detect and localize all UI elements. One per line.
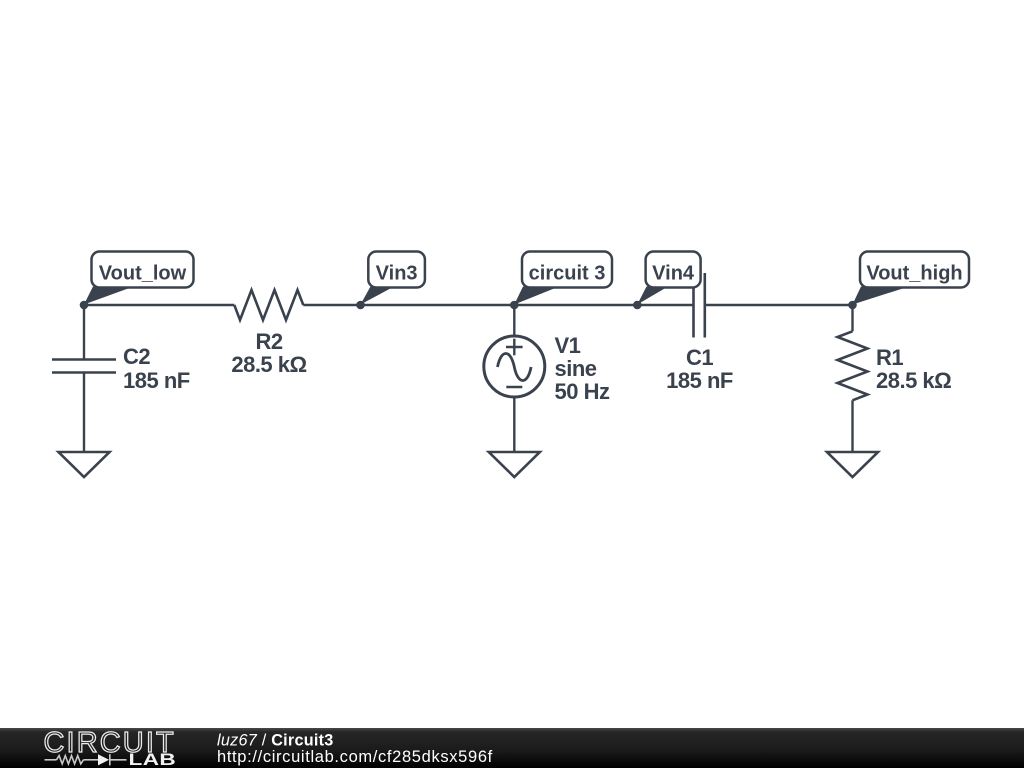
wire R1 branch lower — [851, 400, 853, 452]
voltage source V1 — [484, 336, 545, 397]
ground for C2 — [59, 452, 110, 477]
junction dot node Vout_high — [848, 301, 857, 310]
node Vout_low flag — [84, 252, 194, 305]
C1 value label — [666, 345, 733, 393]
CircuitLab logo wordmark — [44, 727, 176, 759]
wire V1 branch lower — [513, 397, 515, 452]
wire main horizontal middle segment — [303, 304, 693, 306]
junction dot node Vin4 — [633, 301, 642, 310]
svg-text:LAB: LAB — [129, 751, 177, 768]
svg-text:Vout_low: Vout_low — [99, 263, 187, 285]
resistor R1 — [838, 331, 868, 400]
svg-text:R1: R1 — [876, 345, 903, 370]
svg-text:Vin4: Vin4 — [652, 263, 695, 285]
svg-text:C1: C1 — [686, 345, 713, 370]
node Vin4 flag — [637, 252, 700, 305]
CircuitLab logo resistor-diode glyph — [45, 754, 127, 765]
footer title text — [217, 732, 333, 750]
svg-text:sine: sine — [555, 356, 597, 381]
wire main horizontal left segment — [84, 304, 234, 306]
node circuit 3 flag — [514, 252, 612, 305]
svg-text:R2: R2 — [255, 329, 282, 354]
ground for R1 — [827, 452, 878, 477]
wire main horizontal right segment — [705, 304, 853, 306]
svg-text:28.5 kΩ: 28.5 kΩ — [876, 368, 951, 393]
footer url text — [217, 748, 493, 766]
ground for V1 — [489, 452, 540, 477]
svg-text:185 nF: 185 nF — [666, 368, 733, 393]
wire C2 branch lower — [83, 373, 85, 453]
wire V1 branch upper — [513, 305, 515, 336]
svg-text:circuit 3: circuit 3 — [529, 263, 606, 285]
junction dot node Vin3 — [356, 301, 365, 310]
svg-text:luz67 / Circuit3: luz67 / Circuit3 — [217, 732, 333, 750]
junction dot node A — [80, 301, 89, 310]
svg-text:C2: C2 — [123, 344, 150, 369]
V1 value label — [555, 333, 610, 404]
svg-text:28.5 kΩ: 28.5 kΩ — [231, 352, 306, 377]
svg-text:http://circuitlab.com/cf285dks: http://circuitlab.com/cf285dksx596f — [217, 748, 493, 766]
R2 value label — [231, 329, 306, 377]
node Vin3 flag — [361, 252, 425, 305]
wire R1 branch upper — [851, 305, 853, 331]
C2 value label — [123, 344, 190, 393]
junction dot node circuit3 — [510, 301, 519, 310]
capacitor C2 — [52, 360, 116, 373]
node Vout_high flag — [853, 252, 970, 305]
svg-text:185 nF: 185 nF — [123, 368, 190, 393]
CircuitLab logo LAB text — [129, 751, 177, 768]
footer bar — [0, 728, 1024, 768]
R1 value label — [876, 345, 951, 393]
resistor R2 — [234, 290, 303, 320]
svg-text:Vout_high: Vout_high — [866, 263, 962, 285]
svg-text:Vin3: Vin3 — [376, 263, 418, 285]
wire C2 branch upper — [83, 305, 85, 360]
svg-text:50 Hz: 50 Hz — [555, 379, 610, 404]
capacitor C1 — [694, 273, 705, 338]
svg-text:V1: V1 — [555, 333, 581, 358]
